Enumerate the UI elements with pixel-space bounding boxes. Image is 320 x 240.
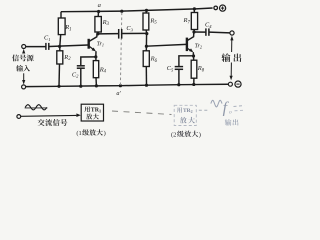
- svg-text:): ): [199, 131, 201, 138]
- svg-text:TR1: TR1: [91, 108, 101, 114]
- svg-text:o: o: [229, 110, 232, 116]
- svg-text:): ): [104, 130, 106, 137]
- svg-text:(2: (2: [171, 131, 176, 138]
- svg-text:(1: (1: [76, 130, 81, 137]
- svg-text:TR2: TR2: [183, 108, 193, 114]
- svg-text:a: a: [98, 2, 101, 9]
- svg-text:Tr2: Tr2: [195, 43, 203, 49]
- svg-text:a': a': [116, 90, 121, 97]
- svg-text:Tr1: Tr1: [97, 41, 104, 47]
